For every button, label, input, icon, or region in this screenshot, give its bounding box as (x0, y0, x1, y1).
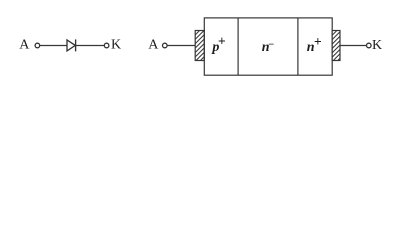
junction boundary p+/n- (237, 18, 239, 75)
svg-text:K: K (111, 38, 121, 53)
wire (A terminal to anode contact) (167, 45, 195, 47)
wire (A terminal to diode) (40, 45, 67, 47)
svg-text:A: A (148, 38, 159, 53)
junction boundary n-/n+ (297, 18, 299, 75)
wire (cathode contact to K terminal) (340, 45, 366, 47)
svg-text:+: + (314, 34, 322, 49)
wire (diode to K terminal) (76, 45, 105, 47)
anode ohmic contact (hatched) (194, 25, 205, 71)
svg-text:−: − (268, 39, 274, 50)
svg-text:A: A (19, 38, 30, 53)
cathode ohmic contact (hatched) (332, 26, 342, 66)
svg-text:+: + (218, 33, 226, 48)
svg-text:K: K (372, 38, 382, 53)
diode D (triangle anode) (67, 40, 75, 51)
terminal A (open circle) (163, 43, 168, 48)
terminal K (open circle) (104, 43, 109, 48)
terminal K (open circle) (367, 43, 372, 48)
semiconductor body outline (204, 18, 332, 75)
terminal A (open circle) (35, 43, 40, 48)
diode D (cathode bar) (75, 39, 77, 51)
